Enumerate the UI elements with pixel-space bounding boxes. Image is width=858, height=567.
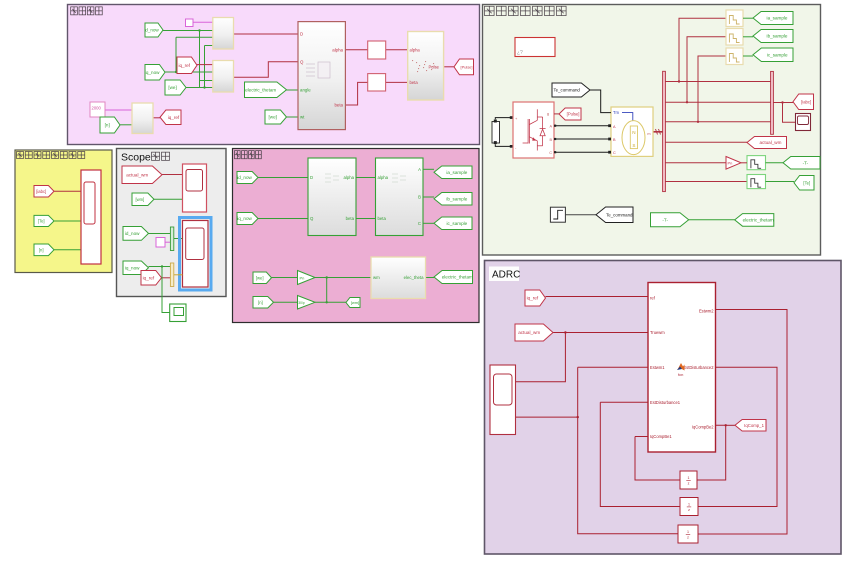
svg-text:z: z (688, 508, 690, 512)
svg-text:[Pulse]: [Pulse] (461, 64, 473, 69)
svg-text:z: z (687, 536, 689, 540)
svg-text:iq_ref: iq_ref (168, 115, 180, 120)
svg-text:ic_sample: ic_sample (447, 221, 468, 226)
svg-text:wm: wm (373, 275, 380, 280)
svg-text:g: g (547, 112, 549, 116)
svg-text:[Te]: [Te] (38, 218, 45, 223)
svg-text:[we]: [we] (256, 275, 264, 280)
svg-text:S: S (632, 143, 635, 148)
svg-text:beta: beta (346, 216, 355, 221)
svg-text:N: N (632, 130, 635, 135)
svg-text:Truewm: Truewm (650, 330, 665, 335)
svg-text:wt: wt (300, 115, 305, 120)
svg-text:Scope: Scope (121, 152, 151, 164)
svg-text:1: 1 (688, 476, 690, 480)
svg-text:iq_ref: iq_ref (527, 296, 539, 301)
svg-text:id_now: id_now (144, 28, 159, 33)
svg-text:id_now: id_now (237, 175, 252, 180)
svg-text:-T-: -T- (803, 160, 809, 165)
svg-text:Pn: Pn (300, 275, 305, 280)
svg-text:1: 1 (687, 530, 689, 534)
svg-text:Estwm1: Estwm1 (650, 365, 665, 370)
svg-text:ic_sample: ic_sample (767, 52, 788, 57)
svg-text:D: D (300, 32, 303, 37)
svg-text:electric_thetam: electric_thetam (245, 87, 276, 92)
svg-text:[n]: [n] (39, 247, 44, 252)
svg-text:angle: angle (300, 88, 311, 93)
svg-text:Tm: Tm (613, 110, 620, 115)
svg-text:ib_sample: ib_sample (446, 196, 467, 201)
svg-text:-T-: -T- (662, 217, 668, 222)
svg-text:alpha: alpha (343, 175, 354, 180)
svg-text:iq_now: iq_now (125, 265, 140, 270)
svg-text:beta: beta (378, 216, 387, 221)
svg-text:Estwm2: Estwm2 (699, 309, 714, 314)
svg-text:EstDisturbance1: EstDisturbance1 (650, 400, 681, 405)
svg-text:electric_thetam: electric_thetam (442, 275, 473, 280)
svg-text:actual_wm: actual_wm (759, 140, 781, 145)
svg-text:z: z (688, 482, 690, 486)
svg-text:beta: beta (410, 80, 419, 85)
svg-text:actual_wm: actual_wm (518, 330, 540, 335)
svg-text:[Te]: [Te] (803, 180, 810, 185)
svg-text:[iabc]: [iabc] (36, 189, 46, 194)
svg-text:EstDisturbance2: EstDisturbance2 (683, 365, 714, 370)
svg-text:IqCompBe1: IqCompBe1 (650, 434, 672, 439)
svg-text:ia_sample: ia_sample (767, 16, 788, 21)
svg-text:Te_command: Te_command (553, 88, 580, 93)
svg-text:[we]: [we] (168, 85, 176, 90)
svg-text:iq_ref: iq_ref (178, 63, 190, 68)
svg-text:alpha: alpha (410, 47, 421, 52)
svg-text:actual_wm: actual_wm (126, 172, 148, 177)
svg-text:elec_theta: elec_theta (404, 275, 424, 280)
svg-text:[Pulse]: [Pulse] (567, 112, 580, 117)
svg-text:C: C (418, 221, 421, 226)
svg-text:ia_sample: ia_sample (446, 170, 467, 175)
svg-text:IqComp_1: IqComp_1 (744, 423, 764, 428)
svg-text:[wm]: [wm] (135, 197, 144, 202)
svg-text:[n]: [n] (105, 123, 110, 128)
svg-text:B: B (418, 195, 421, 200)
svg-text:Pulse: Pulse (429, 64, 440, 69)
svg-text:Q: Q (300, 59, 304, 64)
svg-text:ADRC: ADRC (492, 270, 520, 281)
svg-text:iq_now: iq_now (237, 216, 252, 221)
svg-text:A: A (418, 167, 421, 172)
svg-text:electric_thetam: electric_thetam (743, 218, 774, 223)
svg-text:beta: beta (334, 103, 343, 108)
svg-text:30/p: 30/p (298, 301, 305, 305)
svg-text:D: D (310, 175, 313, 180)
svg-text:iq_now: iq_now (145, 70, 160, 75)
svg-text:iq_ref: iq_ref (143, 275, 155, 280)
svg-text:¿?: ¿? (517, 50, 523, 56)
svg-text:C: C (613, 151, 616, 155)
svg-text:fcn: fcn (678, 372, 683, 377)
svg-text:1: 1 (688, 503, 690, 507)
svg-text:[n]: [n] (258, 300, 263, 305)
svg-text:[wm]: [wm] (351, 300, 359, 305)
svg-text:alpha: alpha (378, 175, 389, 180)
svg-text:Te_command: Te_command (606, 212, 633, 217)
svg-text:2000: 2000 (92, 106, 102, 111)
svg-text:C: C (549, 151, 552, 155)
svg-text:[iabc]: [iabc] (801, 99, 811, 104)
svg-text:IqCompBe2: IqCompBe2 (692, 424, 714, 429)
svg-text:ib_sample: ib_sample (767, 34, 788, 39)
svg-text:[we]: [we] (269, 115, 277, 120)
svg-text:id_now: id_now (125, 231, 140, 236)
svg-text:m: m (647, 132, 650, 136)
svg-text:alpha: alpha (332, 47, 343, 52)
svg-text:Pn: Pn (728, 161, 733, 166)
